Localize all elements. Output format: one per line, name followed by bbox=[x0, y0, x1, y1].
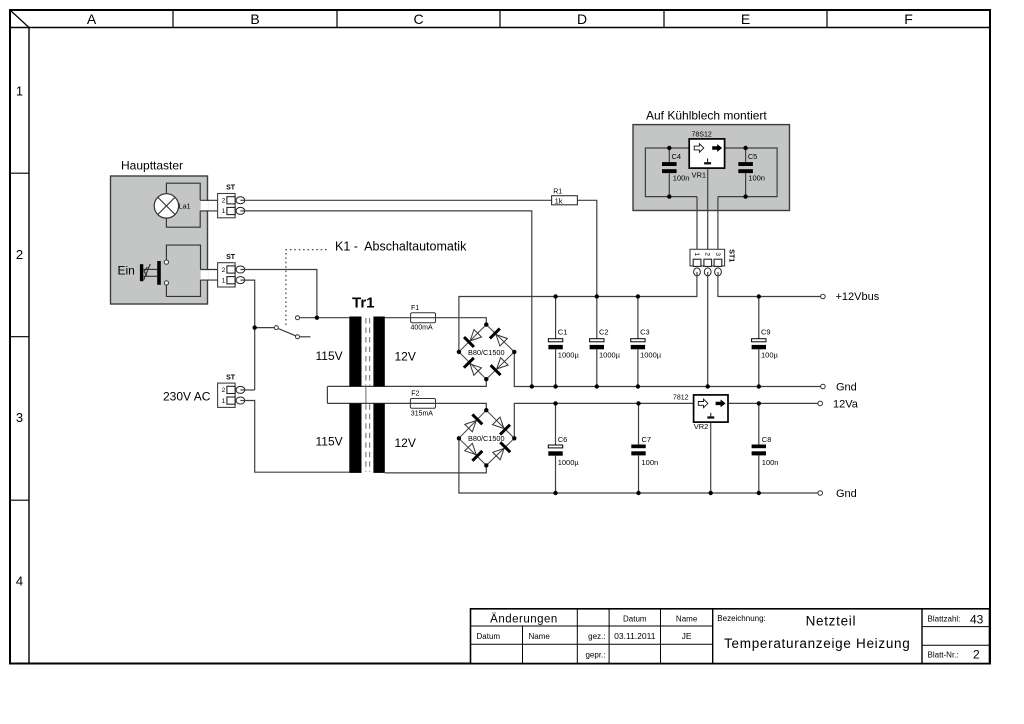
terminal Gnd bbox=[821, 384, 826, 389]
lamp La1 cross bbox=[158, 197, 175, 214]
wire VR1 input loop bbox=[645, 148, 697, 249]
resistor R1 body bbox=[552, 196, 578, 205]
wire mains ST pin2 bbox=[240, 389, 254, 391]
frame top band line bbox=[10, 27, 990, 29]
wire mains ST pin1 to primary bottom bbox=[240, 401, 349, 473]
wire secondary2 bottom to bridge2 bottom bbox=[385, 465, 487, 473]
wire VR2 output to 12Va terminal bbox=[728, 402, 818, 404]
svg-text:4: 4 bbox=[16, 573, 23, 588]
svg-text:1: 1 bbox=[16, 84, 23, 99]
wire VR1 output loop bbox=[718, 148, 777, 249]
K1 dashed association line bbox=[286, 250, 327, 326]
svg-text:B80/C1500: B80/C1500 bbox=[468, 348, 505, 357]
svg-text:ST1: ST1 bbox=[727, 249, 734, 262]
svg-text:B80/C1500: B80/C1500 bbox=[468, 434, 505, 443]
capacitor C8 bbox=[752, 445, 766, 449]
row divider 1/2 bbox=[10, 172, 29, 174]
wire bridge1 plus to raw rail bbox=[459, 276, 697, 352]
svg-text:2: 2 bbox=[222, 198, 226, 205]
svg-text:100n: 100n bbox=[762, 458, 779, 467]
capacitor C1 (electrolytic) bbox=[548, 339, 562, 342]
transformer Tr1 primary winding lower bbox=[349, 403, 361, 473]
wire VR2 ground pin bbox=[710, 422, 712, 493]
transformer Tr1 secondary winding lower bbox=[373, 403, 384, 473]
wire lamp stub pin1 bbox=[200, 210, 217, 212]
title block outline bbox=[471, 609, 990, 664]
svg-text:Name: Name bbox=[529, 632, 551, 641]
svg-text:Bezeichnung:: Bezeichnung: bbox=[717, 614, 765, 623]
svg-text:315mA: 315mA bbox=[411, 410, 434, 417]
relay contact K1 upper contact circle bbox=[296, 316, 300, 320]
wire R1 to raw rail bbox=[577, 200, 596, 296]
regulator VR2 input arrow bbox=[698, 399, 708, 408]
wire C1 bottom bbox=[555, 349, 557, 386]
svg-text:B: B bbox=[250, 11, 259, 27]
wire bridge1 minus to Gnd rail bbox=[514, 352, 821, 387]
svg-text:1: 1 bbox=[693, 252, 700, 256]
wire secondary1 bottom to bridge1 bottom bbox=[327, 379, 486, 386]
svg-text:43: 43 bbox=[970, 613, 984, 627]
svg-text:Blattzahl:: Blattzahl: bbox=[928, 615, 961, 624]
regulator VR1 input arrow bbox=[694, 144, 704, 153]
wire Ein stub pin2 bbox=[201, 269, 218, 271]
bridge B1 diode SE bbox=[491, 356, 510, 375]
svg-text:2: 2 bbox=[222, 387, 226, 394]
svg-text:1: 1 bbox=[222, 277, 226, 284]
svg-text:Tr1: Tr1 bbox=[352, 295, 375, 312]
relay contact K1 lever bbox=[278, 329, 296, 336]
svg-text:1000µ: 1000µ bbox=[599, 350, 621, 359]
relay contact K1 common circle bbox=[274, 326, 278, 330]
svg-text:Datum: Datum bbox=[623, 615, 647, 624]
svg-text:3: 3 bbox=[714, 252, 721, 256]
bridge B1 diode SW bbox=[464, 358, 483, 377]
svg-text:K1 - Abschaltautomatik: K1 - Abschaltautomatik bbox=[335, 240, 467, 254]
wire C8 bottom bbox=[758, 455, 760, 493]
svg-text:100n: 100n bbox=[673, 173, 690, 182]
svg-text:gepr.:: gepr.: bbox=[585, 651, 605, 660]
svg-text:La1: La1 bbox=[179, 204, 191, 211]
svg-text:C9: C9 bbox=[761, 328, 771, 337]
frame left band line bbox=[28, 28, 30, 664]
Auf Kuehlblech montiert gray box bbox=[633, 125, 790, 211]
connector ST1 body bbox=[690, 249, 725, 266]
svg-text:VR1: VR1 bbox=[692, 170, 707, 179]
relay contact K1 lower contact circle bbox=[296, 335, 300, 339]
title block column line Datum/Name2 bbox=[660, 609, 662, 664]
svg-text:3: 3 bbox=[16, 410, 23, 425]
svg-text:1000µ: 1000µ bbox=[640, 350, 662, 359]
svg-text:2: 2 bbox=[704, 252, 711, 256]
fuse F1 bbox=[411, 313, 436, 323]
capacitor C7 bbox=[631, 445, 645, 449]
svg-text:Gnd: Gnd bbox=[836, 381, 857, 393]
connector ST (mains 230V AC) body bbox=[218, 383, 236, 407]
regulator VR1 78S12 body bbox=[689, 139, 724, 168]
regulator VR2 7812 body bbox=[694, 395, 728, 422]
wire ST1 pin2 to Gnd rail bbox=[707, 276, 709, 387]
wire Ein stub pin1 bbox=[201, 279, 218, 281]
svg-text:1: 1 bbox=[222, 208, 226, 215]
svg-text:ST: ST bbox=[226, 374, 236, 381]
wire bridge2 plus to 12Va rail bbox=[514, 403, 693, 438]
fuse F2 bbox=[410, 399, 435, 409]
bridge B2 diode NE bbox=[491, 416, 510, 435]
junction dots bbox=[253, 146, 762, 495]
wire VR1 ground to ST1 pin2 bbox=[707, 168, 709, 249]
capacitor C6 (electrolytic) bbox=[548, 445, 562, 448]
svg-text:400mA: 400mA bbox=[411, 324, 434, 331]
wire C7 top bbox=[638, 403, 640, 444]
svg-text:Ein: Ein bbox=[118, 264, 135, 278]
relay contact K1 unused stub bbox=[300, 336, 311, 338]
svg-text:1: 1 bbox=[222, 398, 226, 405]
wire C2 bottom bbox=[596, 349, 598, 386]
svg-text:230V AC: 230V AC bbox=[163, 390, 211, 404]
wire lamp loop bbox=[166, 183, 200, 227]
svg-text:2: 2 bbox=[973, 648, 980, 662]
regulator VR1 output arrow bbox=[712, 144, 722, 152]
transformer Tr1 secondary winding upper bbox=[373, 317, 384, 387]
wire C5 bottom bbox=[745, 173, 747, 197]
pushbutton Ein right plate bbox=[157, 261, 161, 285]
wire C1 top bbox=[555, 297, 557, 339]
connector ST (lamp) body bbox=[218, 194, 236, 218]
bridge rectifier B2 diamond bbox=[459, 410, 514, 465]
regulator VR2 ground symbol bbox=[710, 413, 712, 417]
title block row line 1 bbox=[471, 625, 713, 627]
wire Ein ST pin1 down to mains junction bbox=[240, 280, 254, 390]
svg-text:Name: Name bbox=[676, 615, 698, 624]
svg-text:03.11.2011: 03.11.2011 bbox=[614, 631, 656, 641]
svg-text:Netzteil: Netzteil bbox=[806, 614, 857, 629]
title block column line after gez bbox=[608, 609, 610, 664]
wire C5 top bbox=[745, 148, 747, 162]
title block row line 2 bbox=[471, 643, 713, 645]
svg-text:A: A bbox=[87, 11, 97, 27]
bridge B1 diode NW bbox=[464, 328, 483, 347]
wire C9 bottom bbox=[758, 349, 760, 386]
terminal Gnd 2 bbox=[818, 491, 823, 496]
svg-text:115V: 115V bbox=[316, 435, 343, 449]
wire C6 top bbox=[555, 403, 557, 445]
svg-text:1000µ: 1000µ bbox=[558, 458, 580, 467]
bridge B2 diode NW bbox=[464, 414, 483, 433]
transformer Tr1 core segment through link band bbox=[365, 386, 367, 403]
terminal +12Vbus bbox=[821, 294, 826, 299]
svg-text:C7: C7 bbox=[642, 435, 652, 444]
svg-text:R1: R1 bbox=[553, 189, 562, 196]
pushbutton Ein bottom contact bbox=[164, 281, 168, 285]
svg-text:C3: C3 bbox=[640, 328, 650, 337]
wire C4 top bbox=[668, 148, 670, 162]
wire C9 top bbox=[758, 297, 760, 339]
svg-text:C2: C2 bbox=[599, 328, 609, 337]
connector ST (switch) body bbox=[218, 263, 236, 287]
svg-text:Datum: Datum bbox=[477, 632, 501, 641]
wire C4 bottom bbox=[668, 173, 670, 197]
svg-text:78S12: 78S12 bbox=[692, 131, 712, 138]
transformer Tr1 core dashed lines bbox=[365, 318, 367, 386]
column divider D/E bbox=[663, 10, 665, 28]
svg-text:F2: F2 bbox=[411, 391, 419, 398]
regulator VR1 ground symbol bbox=[707, 158, 709, 162]
capacitor C5 plates bbox=[738, 162, 753, 166]
svg-text:D: D bbox=[577, 11, 587, 27]
lamp La1 circle bbox=[154, 194, 178, 218]
bridge B1 diode NE bbox=[490, 329, 509, 348]
svg-text:F: F bbox=[904, 11, 913, 27]
svg-text:Auf Kühlblech montiert: Auf Kühlblech montiert bbox=[646, 109, 767, 123]
svg-text:Haupttaster: Haupttaster bbox=[121, 159, 183, 173]
svg-text:E: E bbox=[741, 11, 750, 27]
svg-text:JE: JE bbox=[682, 631, 692, 641]
svg-text:C6: C6 bbox=[558, 435, 568, 444]
wire La1 ST pin1 to Gnd rail bbox=[240, 211, 531, 387]
row divider 3/4 bbox=[10, 499, 29, 501]
wire C6 bottom bbox=[555, 456, 557, 493]
column divider B/C bbox=[336, 10, 338, 28]
wire junction to switch common bbox=[255, 327, 275, 329]
svg-text:C4: C4 bbox=[672, 152, 682, 161]
svg-text:100n: 100n bbox=[748, 174, 765, 183]
svg-text:ST: ST bbox=[226, 185, 236, 192]
svg-text:100n: 100n bbox=[642, 458, 659, 467]
white notch at lamp pins bbox=[201, 201, 209, 210]
svg-text:C8: C8 bbox=[762, 435, 772, 444]
svg-text:12Va: 12Va bbox=[833, 398, 859, 410]
bridge rectifier B1 diamond bbox=[459, 325, 514, 380]
svg-text:1k: 1k bbox=[555, 197, 563, 206]
terminal 12Va bbox=[818, 401, 823, 406]
title block column line before Bezeichnung bbox=[712, 609, 714, 664]
svg-text:C: C bbox=[413, 11, 423, 27]
regulator VR2 output arrow bbox=[716, 400, 726, 408]
svg-text:100µ: 100µ bbox=[761, 350, 779, 359]
transformer Tr1 primary winding upper bbox=[349, 317, 361, 387]
wire C8 top bbox=[758, 403, 760, 444]
svg-text:115V: 115V bbox=[316, 349, 343, 363]
wire C7 bottom bbox=[638, 455, 640, 493]
column divider A/B bbox=[172, 10, 174, 28]
svg-text:F1: F1 bbox=[411, 305, 419, 312]
svg-text:2: 2 bbox=[222, 267, 226, 274]
pushbutton Ein actuator arrow bbox=[144, 264, 151, 280]
wire C2 top bbox=[596, 297, 598, 339]
wire Ein loop bbox=[166, 245, 200, 296]
svg-text:+12Vbus: +12Vbus bbox=[836, 291, 880, 303]
frame corner diagonal bbox=[10, 10, 29, 28]
bridge B2 diode SW bbox=[464, 442, 483, 461]
wire C3 bottom bbox=[637, 349, 639, 386]
row divider 2/3 bbox=[10, 336, 29, 338]
wire secondary2 top to F2 to bridge2 top bbox=[327, 403, 486, 410]
svg-text:ST: ST bbox=[226, 254, 236, 261]
title block column line before Blattzahl bbox=[921, 609, 923, 664]
wire La1 ST pin2 to R1 bbox=[240, 199, 551, 201]
capacitor C2 (electrolytic) bbox=[590, 339, 604, 342]
svg-text:C1: C1 bbox=[558, 328, 568, 337]
title block column line Datum/Name bbox=[522, 626, 524, 663]
white notch at switch pins bbox=[201, 270, 209, 279]
wire switch to transformer primary top bbox=[300, 317, 350, 319]
wire C3 top bbox=[637, 297, 639, 339]
Haupttaster gray box bbox=[111, 176, 208, 304]
wire ST1 pin3 to +12Vbus terminal bbox=[718, 276, 821, 297]
capacitor C3 (electrolytic) bbox=[631, 339, 645, 342]
svg-text:Änderungen: Änderungen bbox=[490, 614, 558, 626]
wire Ein ST pin2 down to switch output bbox=[240, 270, 317, 318]
svg-text:Temperaturanzeige Heizung: Temperaturanzeige Heizung bbox=[724, 636, 910, 651]
svg-text:Blatt-Nr.:: Blatt-Nr.: bbox=[928, 651, 959, 660]
svg-text:C5: C5 bbox=[748, 152, 758, 161]
svg-text:2: 2 bbox=[16, 247, 23, 262]
column divider E/F bbox=[826, 10, 828, 28]
svg-text:VR2: VR2 bbox=[694, 422, 709, 431]
wire bridge2 minus to Gnd2 rail bbox=[459, 438, 818, 493]
svg-text:1000µ: 1000µ bbox=[558, 350, 580, 359]
column divider C/D bbox=[499, 10, 501, 28]
svg-text:12V: 12V bbox=[395, 436, 416, 450]
svg-text:7812: 7812 bbox=[673, 395, 689, 402]
pushbutton Ein link lines bbox=[143, 268, 157, 270]
svg-text:Gnd: Gnd bbox=[836, 488, 857, 500]
capacitor C4 plates bbox=[662, 162, 677, 166]
bridge B2 diode SE bbox=[492, 442, 511, 461]
wire lamp stub pin2 bbox=[200, 199, 217, 201]
title block column line after Aenderungen bbox=[576, 609, 578, 664]
wire secondary1 top to F1 to bridge1 bbox=[385, 318, 487, 325]
pushbutton Ein left plate bbox=[140, 264, 143, 281]
wire winding series link left bbox=[326, 386, 328, 403]
pushbutton Ein top contact bbox=[164, 260, 168, 264]
capacitor C9 (electrolytic) bbox=[752, 339, 766, 342]
svg-text:gez.:: gez.: bbox=[588, 632, 605, 641]
svg-text:12V: 12V bbox=[395, 350, 416, 364]
